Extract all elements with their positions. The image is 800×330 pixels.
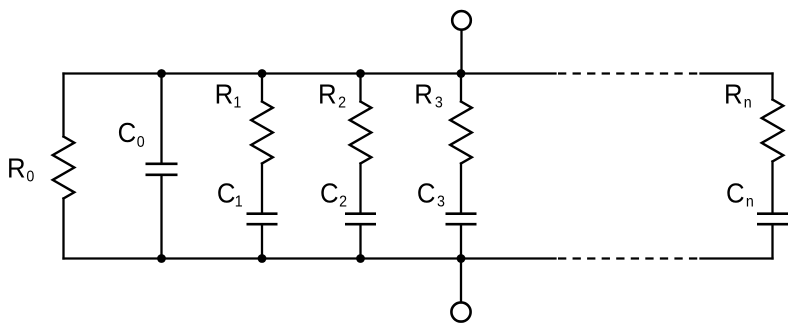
svg-text:2: 2 [338, 95, 346, 112]
svg-text:R: R [318, 78, 337, 109]
svg-text:n: n [746, 194, 754, 211]
svg-text:C: C [417, 178, 436, 209]
svg-text:C: C [320, 178, 339, 209]
svg-text:R: R [724, 78, 743, 109]
svg-text:3: 3 [435, 95, 443, 112]
svg-text:3: 3 [437, 194, 445, 211]
svg-text:1: 1 [233, 95, 241, 112]
svg-text:0: 0 [137, 135, 145, 152]
svg-text:R: R [7, 152, 26, 183]
svg-text:0: 0 [26, 169, 34, 186]
svg-text:1: 1 [235, 194, 243, 211]
svg-text:C: C [726, 178, 745, 209]
svg-text:R: R [215, 78, 234, 109]
svg-text:R: R [414, 78, 433, 109]
svg-text:2: 2 [339, 194, 347, 211]
svg-text:C: C [118, 117, 137, 148]
svg-text:n: n [744, 95, 752, 112]
svg-text:C: C [217, 178, 236, 209]
